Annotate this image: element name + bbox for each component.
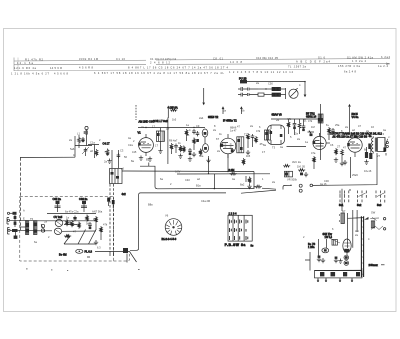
- svg-text:6BE6 V2: 6BE6 V2: [208, 115, 219, 119]
- svg-text:1a5: 1a5: [107, 197, 112, 201]
- svg-text:.01: .01: [303, 119, 307, 123]
- svg-text:C6: C6: [330, 143, 334, 147]
- arrow B2: [222, 107, 224, 114]
- ground G2: [139, 156, 143, 161]
- svg-text:R6 4a7: R6 4a7: [169, 139, 178, 143]
- svg-text:4T: 4T: [73, 230, 76, 234]
- svg-text:C65 2a: C65 2a: [53, 197, 62, 201]
- capacitor C7: [174, 144, 178, 154]
- resistor R12 on AVC: [229, 168, 237, 175]
- switch S1 block: [225, 212, 254, 248]
- svg-text:C9: C9: [196, 124, 200, 128]
- svg-text:1W L4: 1W L4: [325, 235, 333, 239]
- resistor R7: [178, 145, 182, 158]
- resistor R2: [95, 149, 98, 156]
- svg-text:VR 500k: VR 500k: [287, 178, 298, 182]
- ground G11: [338, 259, 342, 264]
- diode cluster: [308, 131, 315, 137]
- svg-text:1a 47: 1a 47: [230, 129, 237, 133]
- thermistor RT: [339, 213, 345, 224]
- volume pot cluster: [283, 165, 308, 177]
- tube V3 6AV6: [313, 133, 330, 150]
- trimmer capacitor C2: [82, 147, 89, 156]
- tuning gang CV2: [54, 228, 61, 234]
- svg-text:V1: V1: [138, 130, 142, 134]
- speaker SP: [383, 138, 388, 156]
- svg-text:b 2a4: b 2a4: [381, 55, 391, 59]
- wire bus A feed: [140, 166, 157, 188]
- svg-text:5a2: 5a2: [357, 203, 362, 207]
- resistor R26: [95, 216, 98, 230]
- resistor R19: [340, 149, 344, 166]
- svg-text:PU 2B: PU 2B: [239, 76, 247, 80]
- svg-text:2 4 6 8 12: 2 4 6 8 12: [150, 60, 171, 64]
- svg-text:RT: RT: [342, 210, 346, 214]
- svg-text:C2a: C2a: [128, 143, 133, 147]
- wire cath drop: [208, 156, 210, 174]
- wire chassis dash-dot: [19, 158, 21, 231]
- wire cath V4: [350, 157, 352, 178]
- svg-text:1k5: 1k5: [172, 118, 177, 122]
- svg-text:4x2: 4x2: [122, 192, 127, 196]
- svg-text:1k5: 1k5: [246, 154, 251, 158]
- rect tube V5 6X4: [343, 239, 351, 255]
- capacitor C1: [81, 137, 85, 142]
- svg-text:4 5 6 R 8: 4 5 6 R 8: [79, 66, 94, 70]
- capacitor C32: [299, 189, 302, 192]
- label output row: [330, 132, 382, 139]
- svg-text:2T: 2T: [337, 145, 340, 149]
- potentiometer VR1: [105, 149, 109, 156]
- capacitor C34: [73, 216, 77, 221]
- svg-text:A: A: [23, 209, 25, 213]
- svg-text:S1 6: S1 6: [318, 56, 326, 60]
- svg-text:C8 .01: C8 .01: [213, 56, 224, 60]
- svg-text:S1 AM SW 2 41a: S1 AM SW 2 41a: [347, 55, 374, 59]
- wire avc tap: [213, 174, 215, 189]
- capacitor C14: [302, 124, 306, 131]
- wire ps left: [319, 239, 327, 256]
- svg-text:C1 10: C1 10: [116, 57, 126, 61]
- svg-text:16+16: 16+16: [364, 169, 372, 173]
- tuning gang CV1: [54, 215, 63, 226]
- parts table rule 2: [14, 63, 390, 65]
- capacitor C21: [238, 93, 272, 97]
- transformer T5 ant: [26, 221, 29, 235]
- svg-text:5a3: 5a3: [377, 203, 382, 207]
- terminal ac2: [383, 228, 385, 230]
- parts table left edge ticks: [13, 58, 15, 72]
- capacitor C25: [123, 248, 137, 263]
- resistor R32: [185, 129, 188, 141]
- legend group 2: [357, 191, 366, 208]
- coupler X1: [310, 184, 332, 187]
- resistor R25: [78, 222, 81, 229]
- terminal TP2: [7, 218, 40, 225]
- svg-text:C40: C40: [185, 178, 190, 182]
- resistor R34: [86, 215, 89, 222]
- tube V2 6BA6: [220, 134, 236, 158]
- svg-text:C4 1T: C4 1T: [103, 142, 110, 146]
- svg-text:C1 10p C2 415p C4: C1 10p C2 415p C4: [150, 57, 177, 61]
- svg-text:47k: 47k: [256, 129, 261, 133]
- capacitor tower C23: [79, 197, 88, 212]
- svg-text:COIL L7 8a2: COIL L7 8a2: [153, 119, 168, 123]
- connector arrow K: [364, 217, 368, 220]
- wire inner link: [64, 221, 77, 225]
- node H1: [290, 185, 291, 186]
- svg-text:1 2 3 4 5 6 7 8 9 10 11 12 13: 1 2 3 4 5 6 7 8 9 10 11 12 13 14: [229, 70, 294, 74]
- legend group 3: [376, 191, 385, 208]
- svg-text:14 5 6 R: 14 5 6 R: [50, 66, 62, 70]
- resistor R16: [328, 127, 331, 140]
- svg-text:V4 6a: V4 6a: [352, 115, 359, 119]
- wire hook H1: [283, 185, 291, 189]
- wire node antenna junction: [75, 136, 92, 148]
- svg-text:V6: V6: [165, 214, 169, 218]
- wire pilot drop: [304, 82, 306, 97]
- label 6X4: [323, 232, 341, 243]
- wire ps top: [348, 210, 365, 248]
- parts table row2 text: [14, 64, 389, 70]
- resistor R18: [334, 148, 338, 162]
- ferrite rod AN: [361, 216, 363, 277]
- svg-text:1M .05: 1M .05: [297, 165, 305, 169]
- svg-text:1a 2.4: 1a 2.4: [378, 64, 389, 68]
- capacitor C19 electrolytic: [368, 134, 372, 149]
- svg-text:SW: SW: [371, 211, 376, 215]
- capacitor tower C22: [53, 197, 62, 212]
- svg-text:4 5 6 6 8: 4 5 6 6 8: [54, 71, 69, 75]
- svg-text:330k R4 1M: 330k R4 1M: [79, 57, 98, 61]
- svg-text:6BA6 V3: 6BA6 V3: [272, 113, 283, 117]
- parts table rule 1: [14, 59, 390, 62]
- capacitor C15 electrolytic: [318, 104, 323, 160]
- wire lamp feed arrow: [203, 88, 205, 105]
- arrow B3: [240, 107, 242, 114]
- label B250: [308, 242, 315, 249]
- svg-text:E: E: [23, 217, 25, 221]
- svg-text:CV 2a5: CV 2a5: [54, 215, 63, 219]
- capacitor C24: [88, 222, 92, 229]
- tube V1 6BE6: [138, 130, 154, 156]
- scan specks: [26, 257, 140, 271]
- capacitor C8: [192, 129, 196, 157]
- transformer T4 output: [372, 136, 385, 153]
- svg-text:6 4 5K7 17 58 18 18 16 16 6T 4: 6 4 5K7 17 58 18 18 16 16 6T 4 2a 8 14 1…: [94, 71, 225, 75]
- legend group 1: [339, 191, 349, 208]
- wire v2 cathode drop: [227, 154, 229, 172]
- svg-text:A B C D E F 2a4: A B C D E F 2a4: [296, 60, 331, 64]
- svg-text:1M: 1M: [311, 125, 315, 129]
- capacitor C33: [188, 148, 192, 161]
- resistor R15: [298, 122, 301, 134]
- dial lamp PL: [76, 249, 93, 253]
- wire plate rail: [138, 126, 205, 128]
- svg-text:5a1: 5a1: [339, 203, 344, 207]
- svg-text:25a5: 25a5: [352, 173, 358, 177]
- wire osc dash riser: [135, 105, 137, 120]
- wire drops to lamp: [110, 252, 114, 256]
- gnd G5: [343, 160, 347, 165]
- resistor R6: [170, 143, 173, 154]
- svg-text:C66 8a: C66 8a: [79, 197, 88, 201]
- terminal TP3: [8, 228, 41, 235]
- svg-text:.02 47k 220 1a 2T 33k C28 B8: .02 47k 220 1a 2T 33k C28 B8: [332, 134, 368, 138]
- wire bus right: [332, 153, 378, 185]
- svg-text:1T: 1T: [155, 144, 158, 148]
- tube socket S: [165, 219, 182, 236]
- capacitor C13: [293, 122, 297, 136]
- wire osc link: [88, 145, 99, 159]
- svg-text:1 25a: 1 25a: [308, 245, 315, 249]
- wire dashed drop B: [113, 184, 115, 252]
- terminal TP1: [7, 212, 16, 215]
- wire AVC bus: [122, 170, 254, 173]
- coil L1 antenna: [84, 126, 88, 136]
- svg-text:C30: C30: [324, 179, 329, 183]
- svg-text:B1-2-3-4-5-6: B1-2-3-4-5-6: [162, 237, 177, 241]
- padder CT2: [203, 144, 209, 153]
- resistor R28 diag: [371, 226, 383, 230]
- resistor R10: [246, 133, 250, 155]
- trimmer circles: [41, 224, 45, 232]
- svg-text:47k: 47k: [287, 117, 292, 121]
- label 240max: [369, 263, 385, 267]
- svg-text:B8a: B8a: [148, 203, 153, 207]
- parts table row1 text: [17, 55, 391, 65]
- arrow B1: [167, 106, 169, 118]
- svg-text:C3: C3: [120, 149, 124, 153]
- svg-text:8+: 8+: [326, 123, 329, 127]
- resistor R1: [78, 135, 81, 146]
- svg-text:6.3V: 6.3V: [175, 170, 181, 174]
- svg-text:C4a 2M: C4a 2M: [201, 199, 210, 203]
- resistor R21 hatched: [272, 93, 286, 96]
- label B5 GB02: [306, 111, 317, 118]
- pot R29: [322, 248, 329, 253]
- svg-text:6.3: 6.3: [97, 246, 101, 250]
- svg-text:6a 47a C2a: 6a 47a C2a: [65, 210, 79, 214]
- capacitor C28: [107, 198, 110, 207]
- wire AGC bus lower: [177, 173, 270, 175]
- resistor R13: [247, 177, 251, 189]
- ground G3: [148, 157, 152, 162]
- wire ps drop left: [305, 252, 310, 271]
- svg-text:1 2L 8 16b 4 5a 6 2T: 1 2L 8 16b 4 5a 6 2T: [11, 72, 49, 76]
- svg-text:PL 6.3: PL 6.3: [85, 250, 93, 254]
- svg-text:56a: 56a: [199, 154, 204, 158]
- resistor R17 vert: [313, 156, 316, 169]
- svg-text:2.2M: 2.2M: [229, 168, 235, 172]
- svg-text:2a4: 2a4: [199, 116, 204, 120]
- capacitor C31: [299, 184, 302, 187]
- svg-text:ANT 56a: ANT 56a: [92, 210, 103, 214]
- svg-text:AVC 2a: AVC 2a: [292, 160, 301, 164]
- resistor R24: [64, 235, 71, 238]
- ground G9: [321, 258, 325, 263]
- node avc tap: [214, 188, 216, 190]
- svg-text:47k: 47k: [103, 223, 108, 227]
- svg-text:12.1 6a: 12.1 6a: [17, 61, 34, 65]
- capacitor C9: [196, 131, 200, 142]
- resistor R14: [287, 121, 290, 134]
- svg-text:1 2 3 4: 1 2 3 4: [229, 212, 237, 216]
- ground G7: [94, 240, 98, 245]
- svg-text:1k5 6A: 1k5 6A: [170, 106, 178, 110]
- svg-text:B1a: B1a: [196, 184, 201, 188]
- dial cord parallelogram: [64, 230, 96, 245]
- wire t5 stub: [20, 226, 26, 228]
- capacitor C27 electrolytic: [344, 261, 349, 266]
- ground G1: [107, 159, 111, 164]
- capacitor C20: [238, 87, 272, 91]
- transformer T5 sec: [34, 221, 37, 235]
- wire t1 plate: [160, 128, 162, 132]
- wire if feed: [271, 119, 321, 124]
- connector P1: [240, 80, 305, 83]
- wire antenna riser: [74, 136, 76, 157]
- svg-text:2T: 2T: [377, 154, 380, 158]
- label 6AQ5: [352, 112, 359, 119]
- parts table rule 3: [14, 69, 310, 70]
- chassis dashed box: [20, 197, 114, 262]
- resistor R23: [71, 220, 74, 227]
- capacitor C29: [112, 200, 115, 208]
- svg-text:B+ 6M: B+ 6M: [59, 252, 67, 256]
- wire band riser A: [112, 150, 118, 168]
- resistor R30 on bus: [253, 185, 261, 188]
- resistor R27: [100, 226, 103, 240]
- wire gnd stub: [148, 163, 150, 167]
- svg-text:P.B.SW 8a: P.B.SW 8a: [225, 243, 246, 247]
- svg-text:156 27R 4 6a: 156 27R 4 6a: [338, 64, 361, 68]
- svg-text:C12 30p C14 .05: C12 30p C14 .05: [256, 56, 279, 60]
- svg-text:14 6 8: 14 6 8: [230, 60, 243, 64]
- IF cluster right: [265, 130, 271, 140]
- svg-text:47a: 47a: [311, 151, 316, 155]
- arrow B4: [349, 105, 351, 132]
- svg-text:.01: .01: [186, 133, 190, 137]
- transformer T3 IF rounded: [268, 125, 285, 145]
- wire bus B: [130, 193, 226, 250]
- transformer T6 heater: [332, 240, 337, 246]
- transformer T2 IF: [237, 137, 244, 153]
- svg-text:121.9 R6 4a: 121.9 R6 4a: [14, 66, 37, 70]
- svg-text:GB02 14: GB02 14: [306, 114, 317, 118]
- wire dashed drop A: [109, 184, 111, 252]
- svg-text:6T: 6T: [216, 137, 219, 141]
- svg-text:R1 47k R2: R1 47k R2: [25, 58, 44, 62]
- wire bottom link: [95, 251, 130, 253]
- resistor R11: [255, 136, 258, 143]
- resistor R8: [182, 146, 185, 153]
- svg-text:B2: B2: [146, 158, 150, 162]
- capacitor C16: [331, 128, 335, 133]
- capacitor C3: [117, 153, 121, 158]
- ground G8: [317, 256, 321, 262]
- coil L2 input: [14, 215, 17, 227]
- wire avc drop: [246, 172, 254, 189]
- wire legend drop: [341, 189, 343, 211]
- resistor R22: [66, 219, 69, 226]
- value labels layer: [23, 81, 391, 250]
- svg-text:25a: 25a: [335, 123, 340, 127]
- switch SW2: [370, 217, 379, 228]
- jack J1: [286, 88, 299, 99]
- svg-text:5a6: 5a6: [70, 147, 75, 151]
- tube V4 6AQ5: [347, 134, 362, 158]
- svg-text:C7: C7: [166, 127, 170, 131]
- capacitor C26 electrolytic: [344, 255, 349, 260]
- padder CT1: [202, 129, 208, 144]
- svg-text:AN: AN: [355, 229, 359, 233]
- svg-text:6a 2.4 8: 6a 2.4 8: [344, 69, 357, 73]
- wire inner bus: [40, 214, 96, 232]
- svg-text:C50: C50: [268, 82, 273, 86]
- capacitor C18 electrolytic: [369, 148, 372, 159]
- svg-text:C1a: C1a: [90, 141, 95, 145]
- ground G12: [158, 141, 162, 153]
- parts table row3 text: [11, 69, 357, 75]
- wire antenna stub: [20, 156, 75, 158]
- junction box 4x2: [110, 169, 127, 197]
- svg-text:47k: 47k: [308, 119, 313, 123]
- capacitor C17 electrolytic: [364, 147, 368, 164]
- transformer T1 osc: [156, 131, 164, 141]
- svg-text:415: 415: [132, 150, 137, 154]
- capacitor C11: [251, 134, 255, 147]
- wire screen riser: [167, 118, 169, 165]
- resistor R33: [199, 149, 202, 156]
- ground G10: [334, 257, 338, 263]
- resistor R31: [242, 158, 245, 165]
- svg-text:c:: c:: [388, 136, 390, 139]
- terminal ac1: [383, 218, 385, 220]
- svg-text:240max: 240max: [369, 263, 379, 267]
- svg-text:1T: 1T: [262, 150, 265, 154]
- junction dots: [145, 81, 350, 191]
- ground G6: [14, 232, 18, 239]
- svg-text:8 4 8K7 L 17 56 C5 18 C6 24 6T: 8 4 8K7 L 17 56 C5 18 C6 24 6T 7 14 2a 4…: [128, 65, 229, 69]
- ground G4: [206, 158, 210, 163]
- wire if bottom: [287, 146, 307, 148]
- resistor R20 hatched: [272, 87, 286, 90]
- wire bus A: [157, 188, 276, 189]
- chassis bar: [315, 270, 363, 281]
- svg-text:8a2: 8a2: [240, 183, 245, 187]
- label osc coil: [139, 119, 169, 123]
- svg-text:1 6 2a 4: 1 6 2a 4: [352, 59, 367, 63]
- svg-text:7L .1567 2a: 7L .1567 2a: [288, 65, 307, 69]
- resistor R5: [170, 106, 178, 112]
- svg-text:IF 455kc T2: IF 455kc T2: [223, 118, 237, 122]
- wire bus B right: [241, 190, 276, 193]
